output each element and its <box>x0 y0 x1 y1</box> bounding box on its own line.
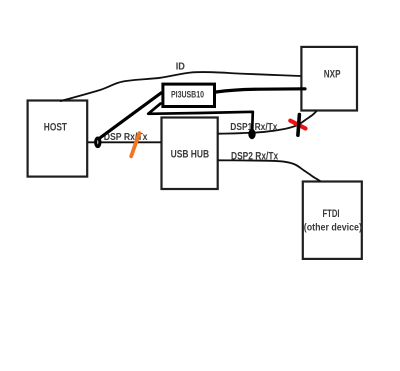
box FTDI (other device) <box>303 182 362 259</box>
svg-text:ID: ID <box>176 62 185 73</box>
orange slash <box>131 133 139 156</box>
X mark black stroke <box>298 115 300 136</box>
box NXP <box>301 47 357 111</box>
X mark red stroke <box>290 121 305 129</box>
box PI3USB10 <box>163 84 215 106</box>
wire DSP1: USB HUB right to NXP bottom <box>218 111 318 134</box>
thick wire node A to PI3USB10 <box>101 93 162 138</box>
svg-text:(other device): (other device) <box>304 222 362 234</box>
wire ID: HOST top to NXP left <box>60 72 301 101</box>
thick wire PI3USB10 hook to node B <box>148 104 253 131</box>
svg-text:NXP: NXP <box>324 69 341 81</box>
svg-text:HOST: HOST <box>44 122 67 134</box>
node B junction dot <box>248 129 255 139</box>
box HOST <box>28 101 88 177</box>
wire DSP2: USB HUB right to FTDI top <box>218 160 321 181</box>
wire HOST to USB HUB <box>88 141 162 143</box>
svg-text:USB HUB: USB HUB <box>171 149 210 161</box>
svg-text:FTDI: FTDI <box>323 208 340 220</box>
svg-text:PI3USB10: PI3USB10 <box>171 89 204 100</box>
svg-text:DSP2 Rx/Tx: DSP2 Rx/Tx <box>231 151 279 163</box>
thick wire PI3USB10 to NXP <box>216 89 305 92</box>
node A junction dot <box>96 138 100 146</box>
box USB HUB <box>162 118 218 190</box>
